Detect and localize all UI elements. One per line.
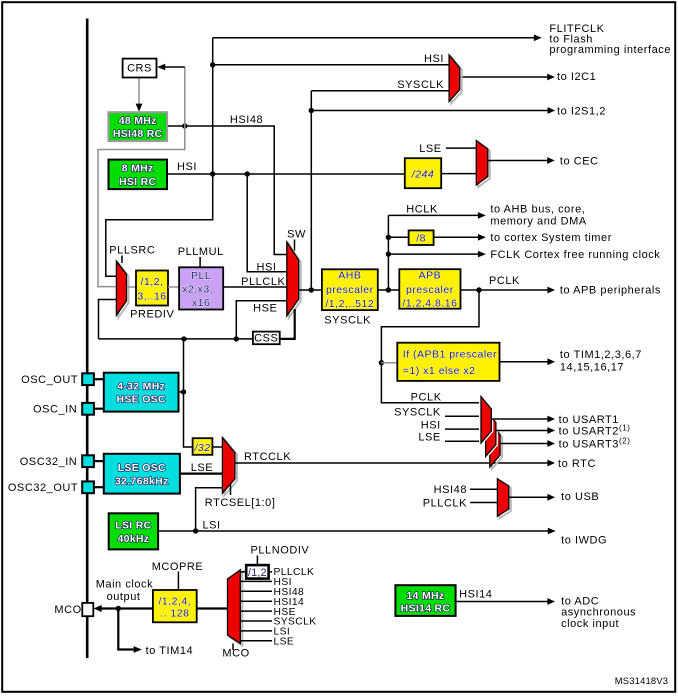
- label HSE at SW mux: [253, 303, 277, 315]
- wire PLLCLK stub to USB mux: [470, 502, 497, 504]
- junction HSI to SW branch: [245, 171, 250, 176]
- oscillator 14 MHz HSI14 RC: [395, 585, 455, 616]
- wire HSI stub at MCO mux: [240, 577, 292, 588]
- wire SYSCLK stub at MCO mux: [240, 617, 316, 628]
- wire to I2S1,2: [311, 107, 555, 114]
- wire HSE to SW mux: [236, 301, 286, 339]
- svg-text:to IWDG: to IWDG: [561, 535, 607, 547]
- svg-text:OSC_IN: OSC_IN: [33, 404, 77, 416]
- label HSI48 at USB mux: [434, 484, 467, 496]
- svg-text:x2,x3,..: x2,x3,..: [182, 283, 220, 295]
- divider PREDIV: [136, 271, 168, 306]
- svg-text:LSI: LSI: [203, 519, 221, 531]
- svg-text:HSI: HSI: [177, 161, 197, 173]
- junction HSE/CSS: [181, 336, 186, 341]
- wire HSE up to CSS line: [183, 339, 185, 392]
- junction PCLK tap: [476, 287, 481, 292]
- label PLLCLK at USB mux: [423, 497, 467, 509]
- mux U_PLLSRC: [116, 261, 128, 317]
- wire OSC32_IN stub: [94, 460, 104, 462]
- svg-text:LSE: LSE: [191, 462, 213, 474]
- label PREDIV: [130, 309, 174, 321]
- svg-text:programming interface: programming interface: [549, 44, 671, 56]
- wire SYSCLK vertical trunk: [310, 91, 312, 290]
- wire to USART1: [491, 416, 555, 423]
- svg-text:/1,2,4,8,16: /1,2,4,8,16: [402, 297, 457, 309]
- wire OSC32_OUT stub: [94, 486, 104, 488]
- svg-text:OSC32_OUT: OSC32_OUT: [8, 482, 78, 494]
- wire PCLK down to USART mux: [381, 290, 481, 403]
- mux U_USART1: [481, 397, 491, 444]
- junction HCLK tap: [386, 287, 391, 292]
- divider MCOPRE /1,2,4..128: [153, 590, 197, 622]
- wire HSI net to /244: [167, 173, 405, 175]
- svg-text:PCLK: PCLK: [489, 275, 520, 287]
- svg-text:HSI48 RC: HSI48 RC: [113, 128, 163, 140]
- wire HSE to PLLSRC mux: [99, 300, 117, 339]
- svg-text:32.768kHz: 32.768kHz: [115, 475, 169, 487]
- MCU boundary bus line: [86, 19, 89, 659]
- wire PLLSRC output to PREDIV (gray): [127, 286, 137, 288]
- wire OSC_IN stub: [94, 408, 104, 410]
- label HSI48: [230, 114, 263, 126]
- svg-text:PLLCLK: PLLCLK: [423, 497, 467, 509]
- junction TIM multiplier tap: [379, 360, 384, 365]
- svg-text:LSE OSC: LSE OSC: [118, 462, 166, 474]
- svg-text:/244: /244: [411, 169, 434, 181]
- svg-text:=1) x1 else x2: =1) x1 else x2: [403, 365, 476, 377]
- wire /32 output to RTC mux: [212, 446, 222, 448]
- svg-text:OSC32_IN: OSC32_IN: [20, 456, 78, 468]
- oscillator 8 MHz HSI RC: [109, 160, 168, 190]
- label to USART2 (1): [559, 423, 631, 437]
- wire HCLK vertical trunk: [387, 215, 389, 290]
- svg-text:HCLK: HCLK: [406, 204, 438, 216]
- mux U_MCO: [228, 570, 243, 650]
- svg-text:MCO: MCO: [222, 647, 249, 659]
- junction SYSCLK/I2S: [309, 108, 314, 113]
- svg-text:x16: x16: [192, 297, 210, 309]
- svg-text:CSS: CSS: [254, 333, 278, 345]
- label PCLK at USART mux: [411, 391, 442, 403]
- wire LSE to CEC mux: [446, 147, 476, 149]
- wire PLLCLK to SW mux: [223, 286, 287, 288]
- label RTCCLK: [244, 451, 291, 463]
- wire CRS trim arrow to HSI48 RC: [136, 78, 143, 112]
- label SW: [287, 229, 306, 241]
- label to I2S1,2: [557, 105, 606, 117]
- svg-text:to TIM1,2,3,6,7: to TIM1,2,3,6,7: [560, 349, 642, 361]
- svg-text:HSI14: HSI14: [459, 588, 492, 600]
- wire HSE stub at MCO mux: [240, 607, 296, 618]
- wire OSC_OUT stub: [94, 378, 104, 380]
- wire AHB to APB prescaler: [378, 289, 400, 291]
- wire HSI stub to USART mux: [445, 428, 481, 430]
- pin MCO: [54, 603, 93, 616]
- label Main clock output: [96, 578, 153, 603]
- svg-text:prescaler: prescaler: [406, 284, 454, 296]
- wire PLLCLK stub label: [269, 567, 315, 578]
- label HSI at USART mux: [421, 419, 441, 431]
- label MS31418V3: [615, 675, 668, 686]
- wire HSI to I2C1 mux: [213, 64, 449, 66]
- label to RTC: [558, 458, 596, 470]
- wire SYSCLK stub to USART mux: [445, 415, 481, 417]
- pin OSC_IN: [33, 403, 94, 416]
- wire LSE stub at MCO mux: [240, 637, 294, 648]
- label SYSCLK at USART mux: [394, 407, 441, 419]
- junction HSI48/CRS: [182, 123, 187, 128]
- wire HSI14 to ADC: [456, 598, 555, 605]
- divider /244: [405, 158, 441, 188]
- tick MCOPRE select: [177, 572, 179, 591]
- svg-text:to APB peripherals: to APB peripherals: [560, 284, 661, 296]
- wire FLITFCLK (HSI to flash interface): [213, 35, 542, 42]
- wire HCLK to AHB destinations: [388, 212, 486, 219]
- svg-text:MS31418V3: MS31418V3: [615, 675, 668, 686]
- svg-text:SYSCLK: SYSCLK: [394, 407, 441, 419]
- label to USART3 (2): [559, 436, 631, 450]
- label to CEC: [560, 155, 599, 167]
- prescaler APB: [399, 269, 460, 309]
- svg-text:MCOPRE: MCOPRE: [152, 561, 204, 573]
- junction HSI/FLITF: [210, 62, 215, 67]
- wire HSI vertical trunk to PLLSRC mux input: [106, 38, 213, 276]
- svg-text:PREDIV: PREDIV: [130, 309, 174, 321]
- svg-text:If (APB1 prescaler: If (APB1 prescaler: [403, 349, 497, 361]
- wire USB mux output: [509, 494, 555, 501]
- svg-text:HSE OSC: HSE OSC: [117, 394, 166, 406]
- pll PLL x2..x16: [179, 267, 223, 309]
- wire /8 output to cortex timer: [434, 234, 486, 241]
- label to APB peripherals: [560, 284, 661, 296]
- svg-text:to I2S1,2: to I2S1,2: [557, 105, 606, 117]
- wire HSE/CSS horizontal: [99, 338, 253, 340]
- wire /244 output: [441, 173, 476, 175]
- wire CRS feedback from HSI48 (gray): [98, 67, 185, 287]
- oscillator HSE OSC: [104, 373, 179, 412]
- mux U_CEC: [476, 141, 490, 188]
- label PLLNODIV: [251, 544, 310, 556]
- junction HSI trunk: [210, 171, 215, 176]
- svg-text:LSE: LSE: [274, 637, 295, 648]
- label HSI14: [459, 588, 492, 600]
- pin OSC_OUT: [21, 373, 94, 386]
- label to IWDG: [561, 535, 607, 547]
- svg-text:SW: SW: [287, 229, 306, 241]
- svg-text:HSE: HSE: [253, 303, 277, 315]
- wire HSI48 net to SW mux: [167, 126, 287, 255]
- junction HSE output: [181, 389, 186, 394]
- mux U_SW: [287, 242, 301, 318]
- mux U_USART2: [486, 410, 496, 457]
- svg-text:HSI: HSI: [424, 53, 444, 65]
- svg-text:/32: /32: [193, 442, 210, 454]
- wire I2C1 mux output: [460, 74, 555, 81]
- tick RTCSEL: [230, 484, 232, 495]
- wire LSE to RTC mux: [180, 473, 222, 475]
- label to cortex System timer: [490, 232, 612, 244]
- divider /32: [193, 438, 213, 455]
- wire to USART3: [500, 440, 555, 447]
- wire HSI48 stub to USB mux: [470, 488, 497, 490]
- junction MCO/TIM14: [116, 606, 121, 611]
- wire PCLK to APB peripherals: [461, 287, 556, 294]
- svg-text:clock input: clock input: [561, 618, 619, 630]
- svg-text:.. 128: .. 128: [160, 608, 189, 620]
- label HSI: [177, 161, 197, 173]
- svg-text:to AHB bus, core,: to AHB bus, core,: [490, 203, 585, 215]
- wire MCOPRE input from MCO mux: [197, 607, 228, 609]
- wire to USART2: [496, 427, 555, 434]
- wire CEC mux output: [488, 157, 555, 164]
- wire FCLK: [388, 251, 486, 258]
- oscillator 48 MHz HSI48 RC: [109, 112, 168, 141]
- oscillator LSI RC: [109, 513, 158, 549]
- svg-text:to CEC: to CEC: [560, 155, 599, 167]
- label LSE: [419, 143, 441, 155]
- svg-text:RTCSEL[1:0]: RTCSEL[1:0]: [205, 497, 276, 509]
- label LSE at RTC mux: [191, 462, 213, 474]
- label PLLSRC: [109, 244, 155, 256]
- svg-text:HSI14 RC: HSI14 RC: [401, 602, 451, 614]
- svg-text:to cortex System timer: to cortex System timer: [490, 232, 612, 244]
- junction LSI: [193, 528, 198, 533]
- wire stub to TIM multiplier (gray): [381, 362, 397, 364]
- wire HSI48 stub at MCO mux: [240, 587, 304, 598]
- svg-text:4-32 MHz: 4-32 MHz: [117, 380, 165, 392]
- oscillator LSE OSC: [104, 454, 180, 494]
- wire SYSCLK to I2C1 mux: [311, 90, 449, 92]
- pin OSC32_OUT: [8, 481, 94, 494]
- label FCLK Cortex free running clock: [490, 249, 660, 261]
- wire HSI to SW mux: [247, 174, 287, 272]
- mux U_USB: [497, 479, 510, 518]
- junction SYSCLK output: [309, 287, 314, 292]
- svg-text:PCLK: PCLK: [411, 391, 442, 403]
- mux U_RTC: [222, 438, 237, 496]
- svg-text:output: output: [107, 591, 141, 603]
- wire HSI14 stub at MCO mux: [240, 597, 304, 608]
- svg-text:PLLSRC: PLLSRC: [109, 244, 155, 256]
- svg-text:to RTC: to RTC: [558, 458, 596, 470]
- svg-text:to USART1: to USART1: [559, 414, 619, 426]
- svg-text:to ADC: to ADC: [561, 596, 599, 608]
- label to TIM14: [146, 645, 194, 657]
- wire branch to TIM14: [118, 609, 142, 653]
- prescaler AHB: [322, 269, 378, 310]
- svg-text:HSI: HSI: [421, 419, 441, 431]
- junction HSE to SW branch: [234, 336, 239, 341]
- svg-text:3,..16: 3,..16: [137, 291, 166, 303]
- label PCLK: [489, 275, 520, 287]
- svg-text:8 MHz: 8 MHz: [122, 163, 154, 175]
- svg-text:HSI: HSI: [257, 261, 277, 273]
- tick PLLMUL select: [199, 257, 201, 267]
- svg-text:prescaler: prescaler: [326, 284, 374, 296]
- svg-text:Main clock: Main clock: [96, 578, 153, 590]
- wire arrow into CRS: [157, 64, 185, 71]
- wire MCO pin to MCOPRE divider: [94, 605, 153, 612]
- divider /1,2 PLLNODIV: [246, 565, 268, 579]
- svg-text:PLLNODIV: PLLNODIV: [251, 544, 310, 556]
- label PLLCLK at SW mux: [241, 276, 285, 288]
- svg-text:HSI RC: HSI RC: [119, 176, 157, 188]
- divider /8: [409, 230, 434, 245]
- svg-text:LSI RC: LSI RC: [115, 520, 151, 532]
- svg-text:memory and DMA: memory and DMA: [490, 216, 586, 228]
- svg-text:AHB: AHB: [338, 270, 361, 282]
- svg-text:MCO: MCO: [54, 604, 81, 616]
- wire HSE stub from oscillator: [179, 391, 184, 393]
- wire RTCCLK to RTC: [235, 460, 555, 467]
- label LSE at USART mux: [418, 432, 440, 444]
- svg-text:to TIM14: to TIM14: [146, 645, 194, 657]
- svg-text:48 MHz: 48 MHz: [119, 115, 157, 127]
- wire LSI net to IWDG: [158, 528, 556, 535]
- label RTCSEL[1:0]: [205, 497, 276, 509]
- svg-text:14 MHz: 14 MHz: [407, 590, 445, 602]
- box CRS: [123, 59, 157, 78]
- svg-text:SYSCLK: SYSCLK: [324, 315, 371, 327]
- wire CSS output to SW mux: [280, 309, 295, 339]
- svg-text:asynchronous: asynchronous: [561, 607, 636, 619]
- pin OSC32_IN: [20, 455, 94, 468]
- svg-text:OSC_OUT: OSC_OUT: [21, 374, 78, 386]
- svg-text:to I2C1: to I2C1: [557, 71, 596, 83]
- tick SW select: [294, 240, 296, 251]
- label HCLK: [406, 204, 438, 216]
- label to TIM1...: [560, 349, 642, 374]
- wire HSE down to /32: [184, 392, 193, 447]
- label FLITFCLK destination: [549, 23, 671, 56]
- label to USB: [561, 491, 599, 503]
- svg-text:HSI48: HSI48: [230, 114, 263, 126]
- svg-text:/1,2,4,: /1,2,4,: [158, 595, 191, 607]
- label SYSCLK at I2C mux: [397, 79, 444, 91]
- svg-text:/8: /8: [416, 232, 426, 244]
- wire LSI to RTC mux: [196, 488, 223, 531]
- label to USART1: [559, 414, 619, 426]
- label SYSCLK under AHB prescaler: [324, 315, 371, 327]
- label MCOPRE: [152, 561, 204, 573]
- mux U_I2C1: [449, 55, 462, 104]
- svg-text:PLLMUL: PLLMUL: [178, 246, 224, 258]
- svg-text:LSE: LSE: [418, 432, 440, 444]
- wire PLLCLK stub into /1,2: [240, 571, 246, 573]
- svg-text:PLL: PLL: [191, 270, 211, 282]
- label to I2C1: [557, 71, 596, 83]
- mux U_USART3: [490, 423, 502, 470]
- svg-text:LSE: LSE: [419, 143, 441, 155]
- label to AHB bus: [490, 203, 586, 227]
- wire LSE stub to USART mux: [445, 440, 481, 442]
- wire stub into /8: [388, 236, 408, 238]
- label MCO at mux: [222, 647, 249, 659]
- box CSS: [253, 332, 280, 345]
- wire LSI stub at MCO mux: [240, 627, 290, 638]
- svg-text:/1,2: /1,2: [248, 567, 267, 579]
- svg-text:FCLK Cortex free running clock: FCLK Cortex free running clock: [490, 249, 660, 261]
- svg-text:HSI48: HSI48: [434, 484, 467, 496]
- svg-text:RTCCLK: RTCCLK: [244, 451, 291, 463]
- svg-text:/1,2,..512: /1,2,..512: [325, 298, 374, 310]
- label HSI at SW mux: [257, 261, 277, 273]
- multiplier TIM x1/x2: [397, 343, 499, 381]
- tick PLLNODIV select: [256, 556, 258, 566]
- label to ADC: [561, 596, 636, 631]
- label PLLMUL: [178, 246, 224, 258]
- junction HCLK //8: [386, 235, 391, 240]
- svg-text:40kHz: 40kHz: [117, 533, 149, 545]
- svg-text:to USB: to USB: [561, 491, 599, 503]
- label HSI at I2C mux: [424, 53, 444, 65]
- svg-text:SYSCLK: SYSCLK: [397, 79, 444, 91]
- tick PLLSRC select: [121, 256, 123, 264]
- wire SYSCLK SW output to AHB prescaler: [299, 289, 322, 291]
- svg-text:APB: APB: [419, 270, 442, 282]
- wire PREDIV to PLL (gray): [168, 286, 179, 288]
- svg-text:14,15,16,17: 14,15,16,17: [560, 362, 624, 374]
- wire TIM multiplier output: [500, 358, 556, 365]
- junction HCLK/FCLK: [386, 251, 391, 256]
- svg-text:CRS: CRS: [127, 63, 152, 75]
- label LSI: [203, 519, 221, 531]
- svg-text:/1,2,: /1,2,: [141, 276, 164, 288]
